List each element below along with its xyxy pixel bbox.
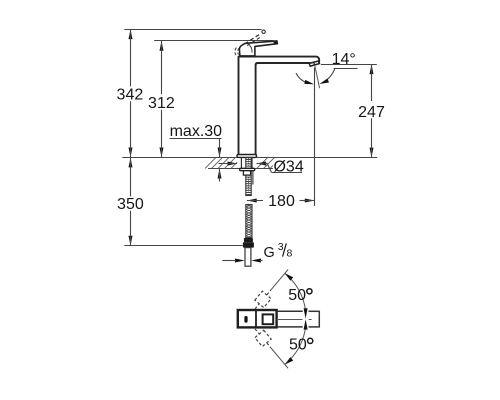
svg-text:50: 50 [288,287,306,304]
svg-text:350: 350 [117,196,144,213]
svg-text:Ø34: Ø34 [273,159,303,176]
svg-text:342: 342 [117,87,144,104]
svg-text:3: 3 [278,241,284,253]
svg-text:50: 50 [289,337,307,354]
svg-text:8: 8 [287,247,293,259]
svg-text:G: G [264,245,275,261]
svg-text:247: 247 [358,104,385,121]
svg-text:180: 180 [268,193,295,210]
svg-text:max.30: max.30 [170,123,223,140]
svg-text:14°: 14° [332,51,356,68]
svg-text:312: 312 [148,95,175,112]
